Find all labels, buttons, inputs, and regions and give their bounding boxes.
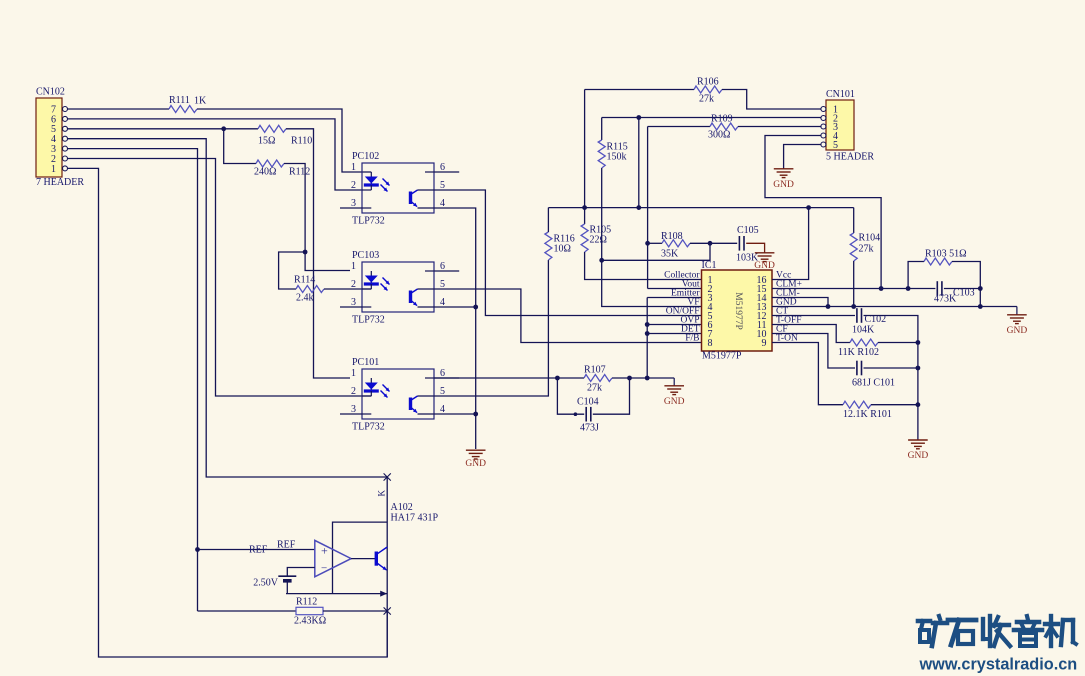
wire opamp minus input	[287, 568, 315, 576]
wire Vcc to rail	[772, 208, 809, 280]
wire C105 to GND	[746, 243, 764, 253]
junction arrow anode	[380, 591, 387, 597]
wire R104 to GND net	[853, 261, 855, 307]
wire Vcc rail	[548, 205, 853, 210]
optocoupler PC101 LED	[364, 378, 390, 398]
svg-text:5: 5	[833, 140, 838, 151]
svg-text:27k: 27k	[859, 244, 874, 255]
svg-text:R110: R110	[291, 136, 312, 147]
svg-text:1: 1	[351, 162, 356, 173]
wire R106 to CN101 pin1	[722, 90, 821, 110]
wire CF to C101	[772, 334, 855, 369]
optocoupler PC103 LED	[364, 271, 390, 291]
optocoupler PC101 pin6 stub	[434, 377, 459, 379]
svg-text:IC1: IC1	[702, 260, 717, 271]
svg-text:R104: R104	[859, 233, 881, 244]
svg-text:PC101: PC101	[352, 357, 379, 368]
junction R108 left	[645, 241, 650, 246]
wire PC103 pin5 to F/B	[434, 289, 702, 343]
svg-text:473J: 473J	[580, 423, 599, 434]
svg-text:TLP732: TLP732	[352, 216, 385, 227]
svg-text:M51977P: M51977P	[733, 292, 743, 329]
wire pin2 riser to rail	[638, 118, 640, 208]
optocoupler PC101 pin3 stub	[340, 413, 362, 415]
resistor R104 27k	[850, 233, 880, 262]
svg-text:+: +	[321, 544, 328, 558]
svg-text:GND: GND	[664, 397, 685, 407]
wire node A to R114	[279, 252, 306, 289]
svg-text:R107: R107	[584, 365, 606, 376]
wire CN101 pin2 net	[602, 115, 821, 120]
wire GND net	[772, 304, 1017, 309]
wire node A to PC103 pin1	[305, 252, 350, 271]
wire R112b to 431 anode	[323, 610, 387, 612]
connector CN101 pins 1-5	[821, 104, 838, 150]
optocoupler PC103 body	[351, 250, 445, 326]
wire 431 top loop	[333, 522, 388, 594]
resistor R111 1K	[169, 95, 207, 113]
svg-text:681J C101: 681J C101	[852, 378, 895, 389]
no-connect X cathode	[384, 473, 391, 480]
wire T-OFF to R102	[772, 325, 850, 343]
junction PC101 pin4	[473, 412, 478, 417]
junction PC103 pin4	[473, 305, 478, 310]
svg-text:R112: R112	[289, 167, 310, 178]
svg-text:F/B: F/B	[685, 334, 699, 344]
svg-text:CN102: CN102	[36, 87, 65, 98]
svg-text:9: 9	[762, 338, 767, 349]
transistor Q 431 output	[376, 547, 387, 570]
svg-text:1K: 1K	[194, 96, 207, 107]
label A102 HA17431P	[391, 502, 439, 524]
wire CN102 pin4 to 431 cathode	[68, 139, 388, 477]
wire node to R112	[224, 129, 256, 164]
svg-text:R108: R108	[661, 231, 683, 242]
svg-text:7 HEADER: 7 HEADER	[36, 177, 84, 188]
optocoupler PC102 pin6 stub	[434, 171, 459, 173]
wire R108 left lead	[648, 242, 662, 244]
wire R105 to Collector	[585, 252, 702, 280]
wire CN102 pin5 to R110	[68, 126, 259, 131]
svg-text:22Ω: 22Ω	[590, 235, 607, 246]
svg-text:2.43KΩ: 2.43KΩ	[294, 616, 326, 627]
wire R102 to GND drop	[878, 340, 920, 345]
wire CN102 pin1 to bottom rail	[68, 168, 388, 657]
wire R109 to CN101 pin3	[738, 126, 821, 128]
capacitor C103 473K	[934, 281, 975, 304]
wire emitter net vertical	[646, 298, 648, 379]
optocoupler PC102 phototransistor	[362, 172, 434, 208]
capacitor C101 681J	[852, 361, 895, 389]
svg-text:TLP732: TLP732	[352, 422, 385, 433]
resistor R109 300ohm	[708, 114, 738, 141]
wire PC102 pin5 to ON/OFF	[434, 190, 702, 316]
wire Emitter	[647, 297, 701, 299]
wire R101 to GND drop	[871, 402, 920, 407]
ground R107 GND	[664, 378, 685, 407]
wire C103 right	[944, 286, 983, 291]
resistor R112 240ohm	[254, 160, 310, 178]
svg-text:www.crystalradio.cn: www.crystalradio.cn	[919, 656, 1078, 674]
wire 431 bottom rail	[286, 593, 387, 595]
svg-text:2: 2	[351, 180, 356, 191]
no-connect X R112b node	[384, 607, 391, 614]
wire R111 to PC102 pin1	[197, 109, 371, 172]
wire R115 to VF	[602, 168, 702, 307]
svg-text:GND: GND	[908, 451, 929, 461]
op-amp IC1 M51977P body	[702, 260, 773, 362]
svg-text:HA17 431P: HA17 431P	[391, 513, 439, 524]
svg-text:2: 2	[351, 386, 356, 397]
wire R116 top to rail	[547, 208, 549, 232]
wire rail to R104	[853, 208, 855, 233]
resistor R108 35K	[661, 231, 690, 260]
wire CN102 pin2 to PC101 pin2	[68, 159, 372, 397]
svg-text:M51977P: M51977P	[702, 351, 742, 362]
svg-text:1: 1	[351, 368, 356, 379]
resistor R103 51ohm	[908, 249, 980, 307]
node REF junction	[195, 547, 200, 552]
svg-text:A102: A102	[391, 502, 413, 513]
svg-text:2.50V: 2.50V	[253, 578, 279, 589]
wire CN101 pin4 to CLM+	[765, 136, 881, 289]
ground timing GND	[908, 440, 929, 461]
svg-text:15Ω: 15Ω	[258, 136, 275, 147]
wire CN102 pin6 to PC102 pin2	[68, 119, 362, 190]
wire C101 to GND drop	[864, 366, 921, 371]
svg-text:2.4k: 2.4k	[296, 293, 314, 304]
wire R112 to node A	[284, 164, 305, 253]
wire R106 left lead	[585, 89, 694, 91]
wire rail to R106	[584, 90, 586, 208]
wire R114 to PC103 pin2	[324, 288, 371, 290]
ground C105 GND	[754, 253, 775, 271]
capacitor C105 103K	[736, 225, 759, 264]
wire C102 to GND drop	[864, 316, 918, 441]
wire opamp output	[351, 558, 375, 560]
wire CT to C102	[772, 315, 855, 317]
resistor R107 27k	[584, 365, 612, 394]
svg-text:REF: REF	[249, 545, 268, 556]
wire OVP	[645, 322, 702, 327]
svg-text:R109: R109	[711, 114, 733, 125]
wire node to R112b	[198, 610, 297, 612]
svg-text:104K: 104K	[852, 325, 875, 336]
wire REF to opamp +	[198, 549, 315, 551]
resistor R106 27k	[694, 77, 722, 105]
svg-text:REF: REF	[277, 540, 296, 551]
optocoupler PC101 body	[351, 357, 445, 433]
svg-text:35K: 35K	[661, 249, 679, 260]
wire CLM+ net	[772, 286, 935, 291]
wire DET	[645, 331, 702, 336]
ground CN101 GND	[773, 169, 794, 190]
svg-text:R114: R114	[294, 275, 315, 286]
svg-text:10Ω: 10Ω	[554, 244, 571, 255]
svg-text:12.1K R101: 12.1K R101	[843, 409, 892, 420]
capacitor C102 104K	[852, 308, 886, 335]
ground IC GND right	[1007, 307, 1028, 336]
resistor R116 10ohm	[545, 232, 575, 260]
svg-text:2: 2	[351, 279, 356, 290]
svg-text:150k: 150k	[607, 152, 627, 163]
svg-text:27k: 27k	[699, 94, 714, 105]
svg-text:300Ω: 300Ω	[708, 130, 730, 141]
battery 2.50V reference	[253, 576, 296, 593]
node A junction	[303, 250, 308, 255]
wire rail to R105	[584, 208, 586, 224]
optocoupler PC102 body	[351, 151, 445, 227]
wire PC101 pin4	[434, 413, 476, 415]
optocoupler PC103 pin6 stub	[434, 270, 459, 272]
resistor R101 12.1K	[843, 401, 892, 420]
wire R109 lead	[648, 126, 710, 128]
wire 431 cathode vertical	[386, 477, 388, 657]
wire CN102 pin7 to R111	[68, 108, 170, 110]
optocoupler PC103 phototransistor	[362, 271, 434, 307]
svg-text:C104: C104	[577, 397, 599, 408]
wire R110 to PC101 pin1	[286, 129, 350, 378]
svg-text:R111: R111	[169, 95, 190, 106]
resistor R105 22ohm	[581, 224, 611, 252]
svg-text:GND: GND	[465, 459, 486, 469]
wire R107 right	[612, 376, 674, 381]
wire CLM- step	[772, 298, 830, 309]
op-amp A102 triangle	[315, 540, 351, 576]
svg-text:PC102: PC102	[352, 151, 379, 162]
ground opto GND	[465, 450, 486, 469]
wire CN102 pin3 to REF node	[68, 149, 198, 611]
net label REF	[249, 540, 296, 556]
wire pin2 to R115	[601, 118, 603, 141]
svg-text:27k: 27k	[587, 383, 602, 394]
svg-text:GND: GND	[773, 180, 794, 190]
resistor R114 2.4k	[294, 275, 324, 304]
svg-text:5 HEADER: 5 HEADER	[826, 152, 874, 163]
wire CN101 pin5 to GND	[784, 145, 821, 169]
svg-text:PC103: PC103	[352, 250, 379, 261]
connector CN101 body	[826, 89, 874, 163]
optocoupler PC102 LED	[364, 172, 390, 192]
wire PC101 pin6 net	[434, 376, 584, 381]
watermark url	[919, 656, 1078, 674]
wire R108 to R115 node	[602, 243, 710, 260]
svg-text:TLP732: TLP732	[352, 315, 385, 326]
resistor R110 15ohm	[258, 125, 312, 146]
wire PC101 pin5 to R116	[434, 260, 548, 396]
pin label K	[377, 490, 387, 497]
optocoupler PC101 phototransistor	[362, 378, 434, 414]
resistor R115 150k	[598, 140, 628, 168]
svg-text:8: 8	[708, 338, 713, 349]
connector CN102 body	[36, 87, 84, 189]
junction R115 node	[599, 258, 604, 263]
optocoupler PC103 pin3 stub	[340, 306, 362, 308]
capacitor C104 473J	[557, 378, 629, 434]
svg-text:1: 1	[51, 164, 56, 175]
svg-text:R103 51Ω: R103 51Ω	[925, 249, 967, 260]
connector CN102 pins 7-1	[51, 104, 68, 174]
wire R108 right	[690, 241, 737, 246]
wire R109 left drop	[647, 127, 649, 289]
wire PC103 pin4	[434, 306, 476, 308]
svg-text:R106: R106	[697, 77, 719, 88]
svg-text:240Ω: 240Ω	[254, 167, 276, 178]
wire PC102 pin4 down	[434, 208, 476, 449]
svg-text:11K R102: 11K R102	[838, 347, 879, 358]
watermark crystalradio logo	[918, 616, 1076, 646]
svg-text:C105: C105	[737, 225, 759, 236]
svg-text:−: −	[321, 563, 327, 575]
wire Vout	[648, 288, 702, 290]
optocoupler PC102 pin3 stub	[340, 207, 362, 209]
wire T-ON to R101	[772, 343, 843, 405]
IC1 pin numbers and labels	[664, 271, 802, 349]
svg-text:R112: R112	[296, 597, 317, 608]
svg-text:K: K	[377, 490, 387, 497]
resistor R102 11K	[838, 339, 879, 358]
svg-text:1: 1	[351, 261, 356, 272]
svg-text:GND: GND	[1007, 326, 1028, 336]
svg-text:CN101: CN101	[826, 89, 855, 100]
resistor R112 2.43K box	[294, 597, 326, 627]
